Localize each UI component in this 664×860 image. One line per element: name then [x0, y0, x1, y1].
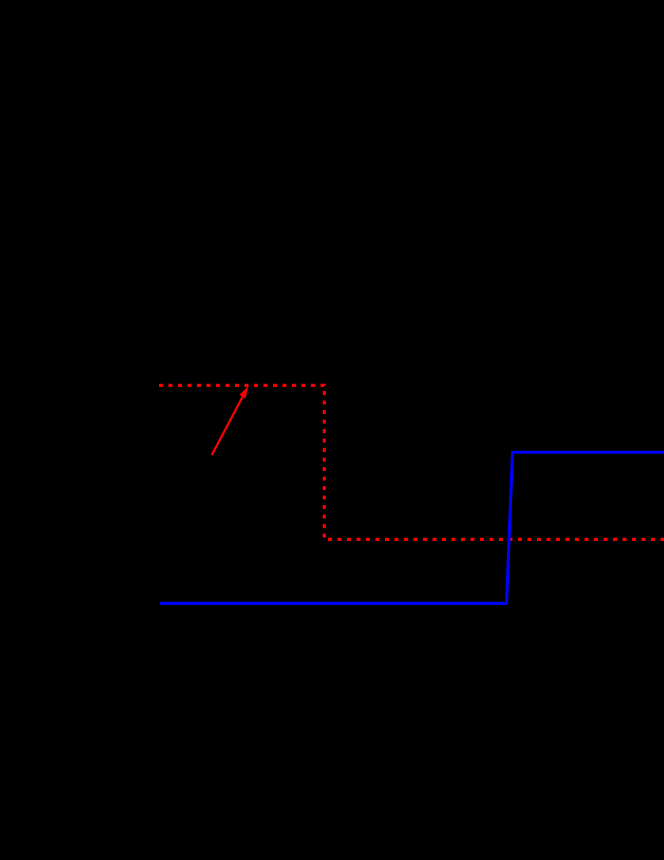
red dotted step curve (setpoint) — [159, 385, 664, 539]
red annotation arrow shaft — [212, 396, 244, 456]
red annotation arrow head — [240, 386, 249, 398]
blue solid step curve (response) — [160, 452, 664, 603]
